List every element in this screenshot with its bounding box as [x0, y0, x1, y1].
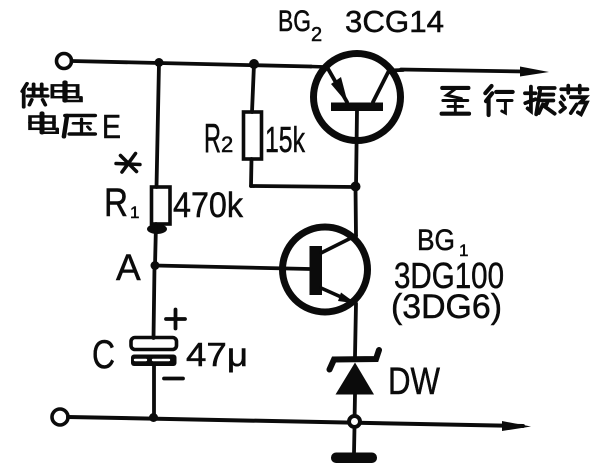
svg-text:R: R [204, 115, 221, 161]
svg-text:E: E [102, 108, 121, 145]
svg-text:DW: DW [388, 361, 440, 403]
svg-text:2: 2 [311, 24, 322, 46]
svg-text:A: A [116, 247, 141, 288]
svg-text:R: R [104, 181, 128, 225]
svg-text:47μ: 47μ [186, 336, 248, 373]
svg-text:3CG14: 3CG14 [345, 4, 444, 39]
svg-text:2: 2 [221, 132, 233, 157]
svg-text:15k: 15k [265, 119, 306, 160]
svg-text:BG: BG [278, 5, 311, 38]
svg-text:1: 1 [130, 203, 139, 222]
svg-text:(3DG6): (3DG6) [391, 288, 502, 326]
svg-text:BG: BG [417, 224, 455, 257]
svg-text:470k: 470k [173, 186, 243, 225]
svg-text:C: C [92, 333, 115, 377]
